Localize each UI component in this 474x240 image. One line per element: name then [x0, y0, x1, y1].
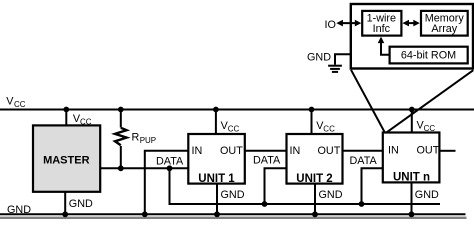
- junction dot UNIT2 riser on L2: [262, 201, 268, 207]
- svg-text:OUT: OUT: [220, 145, 243, 157]
- resistor RPUP: [115, 110, 127, 169]
- wire GND inset to ground: [335, 54, 351, 65]
- junction dot UNIT1 VCC on bus: [213, 107, 219, 113]
- block UNIT 2: [287, 134, 343, 185]
- svg-text:IO: IO: [325, 19, 336, 31]
- junction dot UNITn VCC on bus: [409, 107, 415, 113]
- svg-text:GND: GND: [69, 198, 93, 210]
- block 64-bit ROM inset: [390, 47, 468, 64]
- wire GND bus L1: [0, 213, 466, 215]
- junction dot RPUP on data wire: [118, 165, 124, 171]
- svg-text:Infc: Infc: [373, 23, 391, 35]
- svg-text:MASTER: MASTER: [43, 155, 90, 167]
- ground symbol: [328, 66, 342, 72]
- junction dot RPUP on bus: [118, 107, 124, 113]
- junction dot DATA tap: [167, 165, 173, 171]
- svg-text:GND: GND: [307, 52, 331, 64]
- svg-text:CC: CC: [424, 124, 436, 133]
- pin label UNIT1 VCC: [221, 120, 240, 134]
- wire UNIT1 VCC riser: [215, 110, 217, 135]
- svg-text:GND: GND: [221, 189, 245, 201]
- junction dot MASTER VCC on bus: [63, 107, 69, 113]
- junction dot UNITn riser on L2: [359, 201, 365, 207]
- svg-text:DATA: DATA: [253, 155, 281, 167]
- svg-text:UNIT n: UNIT n: [393, 172, 430, 184]
- svg-text:OUT: OUT: [318, 145, 341, 157]
- junction dot UNIT1 GND on bus: [214, 211, 220, 217]
- wire UNIT2 GND stub: [314, 184, 316, 215]
- wire DATA drop to bus L2: [169, 168, 171, 204]
- svg-text:Array: Array: [431, 23, 457, 35]
- block Memory Array inset: [421, 11, 468, 36]
- svg-text:GND: GND: [319, 189, 343, 201]
- pin label UNITn VCC: [417, 120, 436, 134]
- junction dot UNIT1 riser on GND bus: [142, 211, 148, 217]
- wire UNIT2 data riser: [265, 168, 287, 204]
- arrow IO bidirectional: [336, 20, 361, 27]
- svg-text:PUP: PUP: [140, 136, 156, 145]
- pin label UNIT2 VCC: [316, 120, 335, 134]
- block MASTER: [33, 125, 100, 191]
- svg-text:IN: IN: [192, 145, 203, 157]
- wire UNITn OUT stub: [440, 150, 456, 152]
- magnifier funnel right line: [387, 70, 474, 132]
- wire UNIT2 OUT to UNITn IN: [343, 150, 383, 152]
- block 1-wire interface U-inset: [362, 11, 401, 36]
- magnifier funnel left line: [351, 70, 385, 133]
- wire UNITn data riser: [362, 168, 383, 204]
- svg-text:UNIT 2: UNIT 2: [296, 173, 332, 185]
- wire UNITn GND stub: [411, 182, 413, 214]
- svg-text:UNIT 1: UNIT 1: [198, 173, 235, 185]
- svg-text:IN: IN: [290, 145, 301, 157]
- svg-text:GND: GND: [7, 204, 31, 216]
- junction dot UNIT2 VCC on bus: [309, 107, 315, 113]
- inset magnified unit outer box: [351, 4, 473, 69]
- pin label MASTER VCC: [73, 113, 92, 127]
- svg-text:CC: CC: [228, 125, 240, 134]
- wire DATA from MASTER to UNIT 1: [100, 167, 188, 169]
- node VCC label top-left: [6, 95, 25, 109]
- wire DATA bus L2: [169, 203, 441, 205]
- svg-text:DATA: DATA: [350, 155, 378, 167]
- junction dot UNITn GND on bus: [409, 211, 415, 217]
- block UNIT n: [383, 133, 440, 184]
- wire UNIT1 IN riser: [145, 151, 188, 215]
- svg-text:64-bit ROM: 64-bit ROM: [401, 49, 456, 61]
- junction dot UNIT2 GND on bus: [312, 211, 318, 217]
- wire MASTER VCC stub: [65, 110, 67, 126]
- svg-text:CC: CC: [80, 118, 92, 127]
- svg-text:GND: GND: [415, 189, 439, 201]
- svg-text:R: R: [132, 132, 140, 144]
- value label RPUP: [132, 132, 157, 146]
- wire UNIT1 OUT to UNIT2 IN: [245, 150, 286, 152]
- arrow 1-wire to Memory bidirectional: [402, 20, 419, 27]
- svg-text:CC: CC: [14, 100, 26, 109]
- wire UNIT1 GND stub: [216, 184, 218, 215]
- block UNIT 1: [188, 134, 245, 185]
- wire MASTER GND stub: [64, 192, 66, 215]
- svg-text:OUT: OUT: [417, 145, 440, 157]
- wire UNITn VCC riser: [411, 110, 413, 133]
- junction dot MASTER GND on bus: [62, 211, 68, 217]
- wire VCC bus: [0, 109, 474, 111]
- svg-text:IN: IN: [388, 145, 399, 157]
- svg-text:CC: CC: [323, 125, 335, 134]
- wire bottom cropped bus: [0, 217, 467, 219]
- wire UNIT2 VCC riser: [311, 110, 313, 135]
- arrow ROM to 1-wire: [378, 37, 390, 55]
